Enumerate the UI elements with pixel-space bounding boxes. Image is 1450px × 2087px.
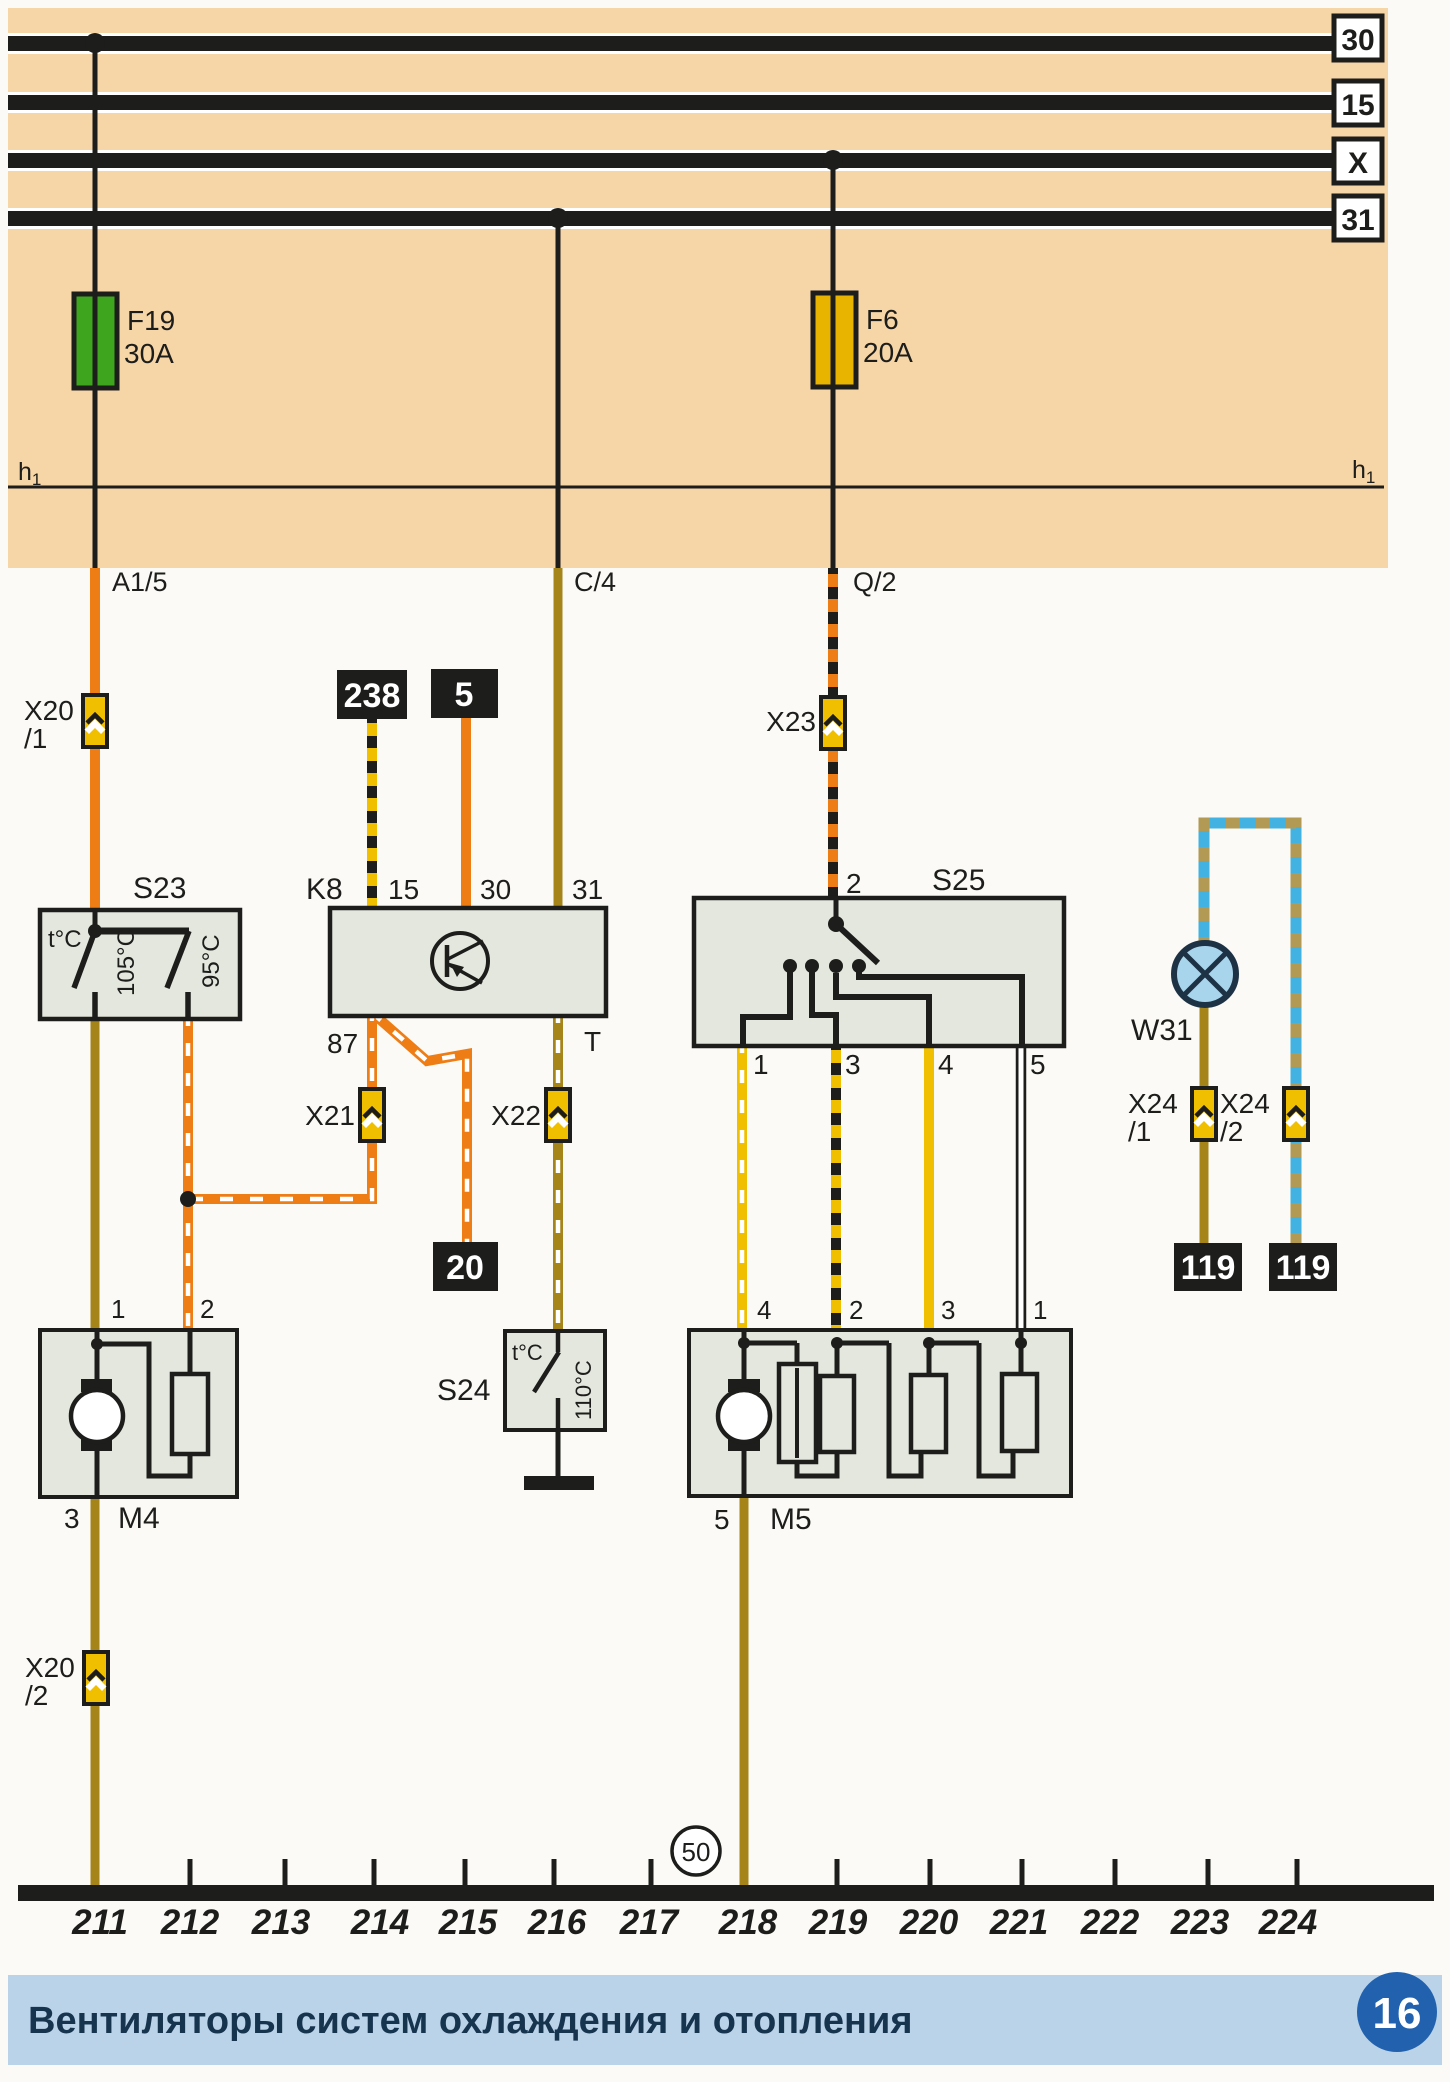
svg-text:221: 221 [989, 1903, 1048, 1942]
svg-text:S24: S24 [437, 1374, 490, 1407]
svg-text:1: 1 [1033, 1295, 1047, 1325]
svg-text:119: 119 [1181, 1249, 1236, 1287]
svg-text:X20: X20 [24, 695, 74, 726]
svg-text:2: 2 [849, 1295, 863, 1325]
svg-text:/1: /1 [24, 723, 47, 754]
svg-text:5: 5 [1030, 1049, 1046, 1080]
svg-text:F6: F6 [866, 304, 899, 335]
svg-text:/1: /1 [1128, 1116, 1151, 1147]
svg-text:X22: X22 [491, 1100, 541, 1131]
svg-text:W31: W31 [1131, 1014, 1193, 1047]
svg-text:95°C: 95°C [198, 934, 225, 988]
svg-text:F19: F19 [127, 305, 175, 336]
svg-text:X23: X23 [766, 706, 816, 737]
svg-text:S25: S25 [932, 864, 985, 897]
svg-text:219: 219 [808, 1903, 868, 1942]
svg-text:Q/2: Q/2 [853, 567, 897, 597]
svg-text:216: 216 [527, 1903, 587, 1942]
svg-text:31: 31 [1341, 204, 1374, 237]
svg-text:5: 5 [714, 1504, 730, 1535]
svg-text:215: 215 [438, 1903, 498, 1942]
svg-text:M5: M5 [770, 1503, 812, 1536]
svg-text:211: 211 [71, 1903, 128, 1942]
svg-text:T: T [584, 1026, 601, 1057]
svg-text:217: 217 [619, 1903, 680, 1942]
svg-text:/2: /2 [1220, 1116, 1243, 1147]
svg-text:3: 3 [64, 1503, 80, 1534]
svg-text:2: 2 [846, 868, 862, 899]
svg-text:214: 214 [350, 1903, 409, 1942]
svg-text:50: 50 [682, 1837, 711, 1867]
svg-text:223: 223 [1170, 1903, 1230, 1942]
svg-text:16: 16 [1373, 1989, 1422, 2038]
svg-text:87: 87 [327, 1028, 358, 1059]
svg-text:S23: S23 [133, 872, 186, 905]
svg-text:2: 2 [200, 1294, 214, 1324]
svg-text:222: 222 [1080, 1903, 1140, 1942]
svg-text:213: 213 [251, 1903, 311, 1942]
svg-text:1: 1 [753, 1049, 769, 1080]
svg-text:4: 4 [757, 1295, 771, 1325]
svg-text:X21: X21 [305, 1100, 355, 1131]
svg-text:238: 238 [344, 677, 401, 715]
svg-text:220: 220 [899, 1903, 959, 1942]
svg-text:X20: X20 [25, 1652, 75, 1683]
svg-text:X24: X24 [1220, 1088, 1270, 1119]
svg-text:20: 20 [446, 1249, 484, 1287]
svg-text:31: 31 [572, 874, 603, 905]
svg-text:A1/5: A1/5 [112, 567, 168, 597]
svg-text:15: 15 [1341, 89, 1374, 122]
svg-text:K8: K8 [306, 873, 343, 906]
svg-text:105°C: 105°C [113, 929, 140, 996]
svg-text:212: 212 [160, 1903, 220, 1942]
svg-text:15: 15 [388, 874, 419, 905]
svg-text:4: 4 [938, 1049, 954, 1080]
svg-text:119: 119 [1276, 1249, 1331, 1287]
svg-text:/2: /2 [25, 1680, 48, 1711]
svg-text:3: 3 [941, 1295, 955, 1325]
svg-text:t°C: t°C [512, 1340, 543, 1365]
svg-text:1: 1 [111, 1294, 125, 1324]
svg-text:5: 5 [455, 676, 474, 714]
svg-text:110°C: 110°C [571, 1360, 596, 1420]
svg-text:224: 224 [1258, 1903, 1317, 1942]
svg-text:30A: 30A [124, 338, 174, 369]
svg-text:t°C: t°C [48, 926, 82, 953]
svg-text:X: X [1348, 147, 1368, 180]
svg-text:20A: 20A [863, 337, 913, 368]
svg-text:Вентиляторы систем охлаждения: Вентиляторы систем охлаждения и отоплени… [28, 2000, 913, 2042]
svg-text:30: 30 [1341, 24, 1374, 57]
svg-text:218: 218 [718, 1903, 778, 1942]
svg-text:X24: X24 [1128, 1088, 1178, 1119]
svg-text:30: 30 [480, 874, 511, 905]
svg-text:M4: M4 [118, 1502, 160, 1535]
svg-text:3: 3 [845, 1049, 861, 1080]
svg-text:C/4: C/4 [574, 567, 616, 597]
